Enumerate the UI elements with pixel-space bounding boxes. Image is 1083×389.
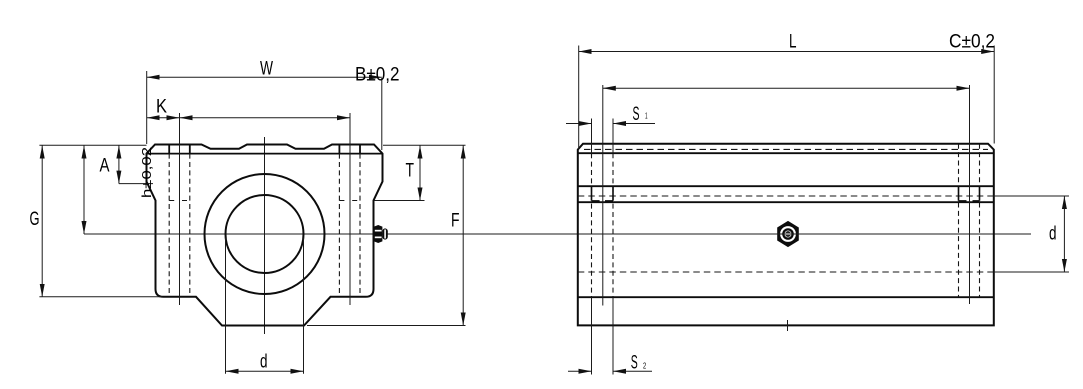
svg-text:B±0,2: B±0,2 [355,65,400,86]
side view bore top hidden line [578,195,994,197]
svg-text:d: d [1049,224,1057,245]
side view top plate bottom line [578,152,994,154]
dimension S1 left tail [566,123,592,125]
dimension d (front) line [226,370,304,372]
svg-text:S: S [631,353,638,374]
svg-text:W: W [260,59,273,80]
side view bottom seam line [578,296,994,298]
dimension T top extension [383,144,466,146]
dimension F bottom extension [307,325,466,327]
left groove hidden lines [592,153,614,297]
svg-text:1: 1 [645,112,648,121]
grease nipple on front view right wall [374,225,388,243]
left hole bottom feet ticks [592,200,614,202]
svg-text:S: S [633,104,640,125]
svg-text:C±0,2: C±0,2 [949,32,995,53]
dimension S2 right tail [613,370,652,372]
left hole axis line [602,85,604,306]
svg-text:F: F [451,211,460,232]
dimension d (side) line [1063,196,1065,272]
dimension d (side) top extension [994,195,1069,197]
side view step line upper [578,185,994,187]
right groove hidden lines [959,144,980,298]
dimension W left extension [146,71,148,144]
svg-text:2: 2 [643,361,646,371]
front view vertical centerline [264,137,266,334]
front view bore circle [226,195,304,273]
right hole center line [349,113,351,305]
front view top face line [147,153,383,155]
dimension W right extension [381,78,383,150]
svg-text:K: K [156,97,167,118]
right hole hidden lines [339,154,360,297]
right hole solid walls in step band [959,186,980,201]
side view bottom center tick [787,320,789,331]
dimension G line [41,146,43,297]
dimension S1 right tail [613,123,655,125]
left hole hidden bottom ticks [169,200,190,202]
dimension L left extension [578,46,580,150]
svg-text:h±0,02: h±0,02 [139,147,154,198]
left hole hidden lines [169,154,190,297]
right hole hidden bottom ticks [339,200,360,202]
front view body outline [147,145,383,326]
side view step line lower [578,201,994,203]
svg-text:G: G [30,209,40,230]
dimension C line [603,87,970,89]
dimension L line [579,51,995,53]
svg-text:A: A [100,156,110,177]
dimension d (side) bottom extension [994,271,1069,273]
right hole axis line [969,85,971,304]
dimension d (front bore) extensions [226,238,304,374]
dimension L right extension [993,46,995,144]
dimension K line [147,117,180,119]
left hole center line [179,113,181,305]
front view outer circle [205,174,325,294]
svg-text:d: d [260,351,268,372]
dimension B line [180,117,351,119]
dimension h line (top to centerline) [83,146,85,235]
dimension W line [147,76,382,78]
side view body outline [578,144,994,326]
dimension A bottom extension [119,183,153,185]
right hole solid stubs in cap band [339,145,360,154]
horizontal centerline through both views [84,233,1031,235]
dimension A line [118,146,120,184]
left hole solid walls in step band [592,186,614,201]
side view bore bottom hidden line [578,271,994,273]
left groove solid extensions through top band (S1) [592,119,614,154]
dimension S2 left tail [568,370,592,372]
dimension F line [462,146,464,326]
dimension G bottom extension [39,296,161,298]
right hole bottom feet ticks [959,200,980,202]
dimension T bottom extension [375,200,425,202]
svg-text:L: L [789,32,797,53]
side view hidden line in top band [584,148,988,150]
svg-text:T: T [406,161,415,182]
grease nipple hex (side view front face) [777,221,799,247]
left hole solid stubs in cap band [169,145,190,154]
dimension G top extension [39,144,146,146]
dimension S2 extensions [592,297,614,374]
dimension T line [419,146,421,201]
